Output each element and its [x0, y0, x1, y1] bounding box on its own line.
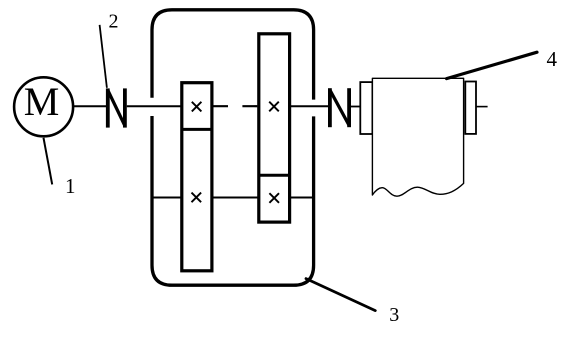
leader line 2	[100, 25, 107, 88]
drum 4 with hanging web (wavy torn bottom edge)	[372, 78, 463, 196]
bearing cross, right gear lower (intermediate shaft)	[269, 193, 279, 203]
leader line 1	[44, 138, 53, 185]
shaft wire: coupling to drum bearing	[351, 106, 360, 108]
coupling 2 (input coupling, N symbol)	[108, 88, 125, 127]
gearbox housing 3 (rounded box with wall gaps at shafts)	[152, 10, 314, 285]
svg-text:M: M	[24, 79, 60, 124]
gear block right (big gear and output pinion)	[259, 34, 290, 222]
intermediate shaft wire (wall to left gear)	[152, 197, 182, 199]
leader line 4	[447, 52, 538, 78]
leader line 3	[306, 279, 375, 311]
svg-text:1: 1	[65, 174, 76, 198]
intermediate shaft wire (right gear to wall)	[290, 197, 314, 199]
output coupling (N symbol)	[330, 88, 349, 127]
motor M (electric motor, item 1)	[14, 77, 73, 136]
dashed coaxial axis between input and output shafts	[213, 105, 257, 107]
drum right bearing block	[465, 82, 476, 134]
output shaft wire: gear to coupling	[290, 105, 328, 107]
bearing cross, left gear lower (intermediate shaft)	[192, 193, 202, 203]
bearing cross, left gear upper (input shaft)	[192, 102, 202, 112]
motor output shaft wire	[73, 105, 106, 107]
svg-text:3: 3	[389, 304, 399, 326]
svg-text:4: 4	[547, 47, 558, 71]
drum right stub shaft wire	[476, 106, 488, 108]
drum left bearing block	[360, 82, 372, 134]
input shaft wire: coupling to gearbox	[127, 105, 181, 107]
intermediate shaft wire (left gear to right gear)	[212, 197, 259, 199]
gear block left (gears on input and intermediate shafts)	[182, 83, 212, 271]
bearing cross, right gear upper (output shaft)	[269, 102, 279, 112]
svg-text:2: 2	[109, 11, 119, 33]
